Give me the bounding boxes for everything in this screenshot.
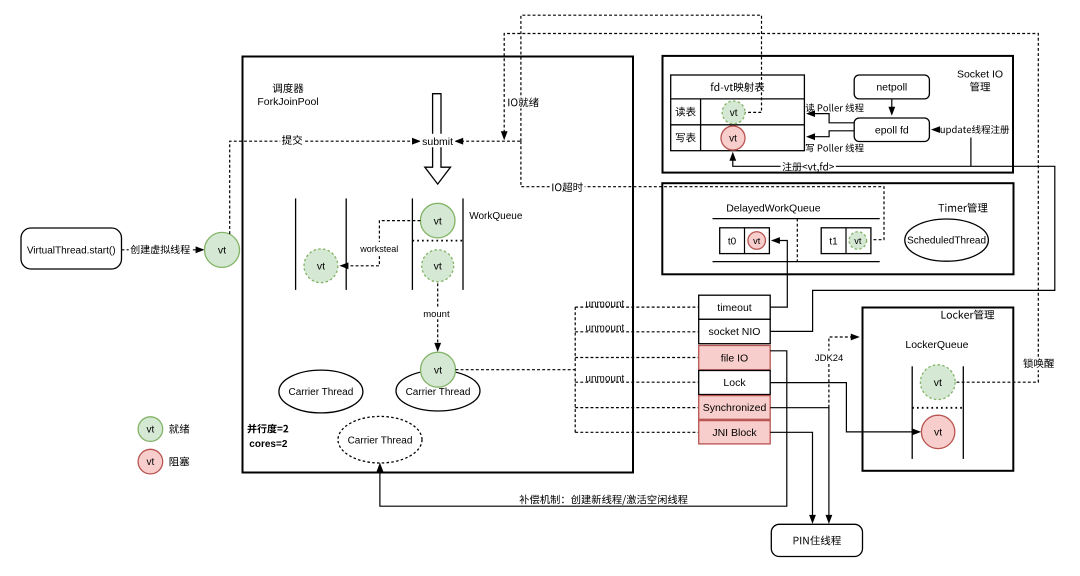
svg-text:ScheduledThread: ScheduledThread bbox=[907, 236, 986, 247]
label cores=2 bbox=[249, 439, 288, 450]
box scheduler ForkJoinPool bbox=[243, 57, 634, 473]
wire unmount to JNI Block bbox=[575, 431, 699, 433]
box PIN住线程 bbox=[771, 524, 862, 556]
svg-text:unmount: unmount bbox=[585, 374, 624, 385]
box socket NIO bbox=[699, 319, 771, 343]
node vt queued (green solid) bbox=[420, 203, 455, 238]
svg-text:vt: vt bbox=[753, 236, 761, 246]
wire JNI Block to PIN bbox=[770, 432, 816, 524]
svg-text:JNI Block: JNI Block bbox=[712, 427, 757, 439]
node legend vt blocked (pink) bbox=[138, 449, 163, 474]
node vt new (green) bbox=[205, 232, 240, 267]
box file IO (pink) bbox=[699, 346, 771, 370]
node vt t0 (pink) bbox=[748, 232, 766, 250]
ellipse carrier thread 1 bbox=[279, 370, 363, 413]
label Socket IO bbox=[957, 69, 1003, 81]
label update线程注册 with arrow into epoll fd bbox=[931, 125, 1009, 135]
svg-text:socket NIO: socket NIO bbox=[709, 326, 761, 338]
wire timeout to t0 vt bbox=[770, 237, 787, 307]
wire 提交 submit-edge bbox=[230, 138, 421, 234]
locker queue rails bbox=[912, 366, 963, 459]
svg-text:vt: vt bbox=[147, 457, 155, 468]
locker dotted divider bbox=[912, 407, 963, 409]
label JDK24 bbox=[814, 351, 845, 364]
box Synchronized (pink) bbox=[699, 396, 771, 420]
label ForkJoinPool bbox=[257, 96, 318, 108]
label 调度器 bbox=[273, 83, 304, 93]
wire netpoll to epoll fd bbox=[888, 99, 895, 116]
wire unmount vertical bus bbox=[574, 307, 576, 432]
label mount bbox=[421, 307, 451, 320]
svg-text:vt: vt bbox=[147, 425, 155, 436]
svg-text:vt: vt bbox=[854, 236, 862, 246]
box epoll fd bbox=[854, 118, 929, 142]
svg-text:vt: vt bbox=[218, 245, 226, 257]
box Socket IO 管理 bbox=[663, 56, 1014, 173]
wire Lock to locker vt bbox=[770, 383, 921, 436]
label 就绪 bbox=[169, 424, 189, 434]
label Timer管理 bbox=[938, 203, 987, 213]
node vt stolen (green dashed) bbox=[304, 249, 338, 283]
node vt blocked lock (pink) bbox=[921, 415, 954, 448]
node vt write-table (pink) bbox=[721, 126, 745, 150]
svg-text:cores=2: cores=2 bbox=[249, 439, 288, 450]
wire unmount to file IO bbox=[575, 357, 699, 359]
svg-text:timeout: timeout bbox=[717, 302, 752, 314]
svg-text:Socket IO: Socket IO bbox=[957, 69, 1003, 81]
svg-text:vt: vt bbox=[730, 108, 738, 119]
box timeout bbox=[699, 295, 771, 319]
wire unmount to timeout bbox=[575, 306, 699, 308]
wire lock-wake loop (line B) bbox=[501, 34, 1039, 383]
node vt read-table (green dashed) bbox=[722, 101, 745, 124]
svg-text:LockerQueue: LockerQueue bbox=[905, 339, 968, 351]
node vt t1 (green dashed) bbox=[849, 232, 867, 250]
svg-text:mount: mount bbox=[423, 309, 450, 320]
label DelayedWorkQueue bbox=[726, 203, 821, 215]
box Locker 管理 bbox=[863, 308, 1014, 471]
node vt mounted (green) bbox=[421, 352, 456, 387]
svg-text:vt: vt bbox=[434, 364, 442, 376]
wire IO-timeout bbox=[521, 141, 884, 240]
svg-text:submit: submit bbox=[422, 136, 453, 148]
wire file IO compensation to carrier bbox=[377, 351, 787, 506]
label 注册<vt,fd> bbox=[781, 160, 836, 173]
label unmount 1 bbox=[585, 299, 624, 310]
label fd-vt映射表 bbox=[711, 82, 765, 92]
label IO就绪 bbox=[507, 97, 540, 109]
box Timer 管理 bbox=[662, 183, 1013, 274]
node vt queued2 (green dashed) bbox=[422, 250, 454, 282]
wire socket NIO register <vt,fd> bbox=[729, 152, 1054, 332]
wire unmount to Lock bbox=[575, 381, 699, 383]
wire unmount from vt bbox=[456, 369, 576, 371]
shape big hollow arrow bbox=[425, 94, 451, 184]
svg-text:worksteal: worksteal bbox=[359, 244, 398, 254]
box t1 cell bbox=[821, 228, 871, 254]
svg-text:WorkQueue: WorkQueue bbox=[469, 211, 523, 222]
svg-text:Lock: Lock bbox=[723, 377, 746, 389]
label 阻塞 bbox=[170, 457, 190, 467]
wire unmount to socket NIO bbox=[575, 331, 699, 333]
svg-text:vt: vt bbox=[317, 261, 325, 273]
svg-text:vt: vt bbox=[934, 377, 942, 389]
label 读表 bbox=[676, 107, 696, 117]
workqueue column lines bbox=[296, 198, 463, 290]
svg-text:unmount: unmount bbox=[585, 323, 624, 334]
wire create-virtual-thread bbox=[122, 246, 205, 253]
label submit bbox=[420, 134, 455, 148]
label 并行度=2 bbox=[248, 424, 289, 434]
label 写表 bbox=[676, 133, 696, 143]
ellipse carrier thread 2 bbox=[396, 370, 480, 411]
table fd-vt mapping bbox=[671, 75, 805, 151]
wire update-thread stub bbox=[970, 138, 972, 167]
wire read poller arrow bbox=[806, 110, 854, 123]
box Lock bbox=[699, 371, 771, 395]
wire write poller arrow bbox=[806, 131, 854, 140]
svg-text:file IO: file IO bbox=[721, 352, 748, 364]
ellipse carrier thread 3 (dashed idle) bbox=[338, 416, 422, 463]
wire IO-ready loop (line A) bbox=[521, 15, 762, 141]
label 锁唤醒 bbox=[1021, 357, 1055, 371]
svg-text:Carrier Thread: Carrier Thread bbox=[288, 387, 353, 398]
label worksteal bbox=[359, 242, 400, 254]
box netpoll bbox=[854, 75, 929, 99]
wire Synchronized to PIN bbox=[770, 408, 832, 524]
svg-text:Synchronized: Synchronized bbox=[703, 402, 767, 414]
svg-text:vt: vt bbox=[934, 427, 942, 439]
node vt waiting lock (green dashed) bbox=[920, 365, 955, 400]
label LockerQueue bbox=[905, 339, 968, 351]
svg-text:vt: vt bbox=[434, 215, 442, 227]
queue dotted divider bbox=[412, 240, 463, 242]
label unmount 3 bbox=[585, 374, 624, 385]
svg-text:t1: t1 bbox=[829, 236, 838, 247]
label 补偿机制 bbox=[520, 495, 688, 506]
svg-text:t0: t0 bbox=[728, 236, 737, 247]
label 创建虚拟线程 bbox=[129, 243, 192, 256]
label IO超时 bbox=[550, 181, 585, 195]
label 写 Poller 线程 bbox=[806, 144, 864, 153]
svg-text:JDK24: JDK24 bbox=[815, 353, 844, 364]
svg-text:DelayedWorkQueue: DelayedWorkQueue bbox=[726, 203, 821, 215]
wire submit right segment bbox=[454, 138, 521, 145]
wire unmount to Synchronized bbox=[575, 407, 699, 409]
label 读 Poller 线程 bbox=[806, 103, 864, 112]
svg-text:netpoll: netpoll bbox=[876, 82, 907, 94]
svg-text:VirtualThread.start(): VirtualThread.start() bbox=[27, 245, 116, 256]
box t0 cell bbox=[720, 228, 770, 254]
label 管理 (socket io) bbox=[970, 82, 990, 92]
svg-text:Carrier Thread: Carrier Thread bbox=[406, 387, 471, 398]
svg-text:epoll fd: epoll fd bbox=[875, 124, 909, 136]
wire worksteal bbox=[339, 221, 420, 270]
label WorkQueue bbox=[469, 211, 523, 222]
svg-text:Carrier Thread: Carrier Thread bbox=[348, 435, 413, 446]
node legend vt ready (green) bbox=[138, 417, 163, 442]
label unmount 2 bbox=[585, 323, 624, 334]
svg-text:vt: vt bbox=[729, 134, 737, 145]
svg-text:unmount: unmount bbox=[585, 299, 624, 310]
label 提交 bbox=[280, 133, 304, 147]
delayed queue rails bbox=[713, 219, 880, 262]
ellipse ScheduledThread bbox=[905, 219, 989, 261]
svg-text:vt: vt bbox=[434, 261, 442, 273]
box VirtualThread.start() bbox=[21, 228, 122, 269]
wire JDK24 dashed to Locker bbox=[829, 334, 860, 408]
label Locker管理 bbox=[942, 310, 995, 320]
svg-text:ForkJoinPool: ForkJoinPool bbox=[257, 96, 318, 108]
wire mount bbox=[434, 283, 441, 352]
box JNI Block (pink) bbox=[699, 421, 771, 444]
